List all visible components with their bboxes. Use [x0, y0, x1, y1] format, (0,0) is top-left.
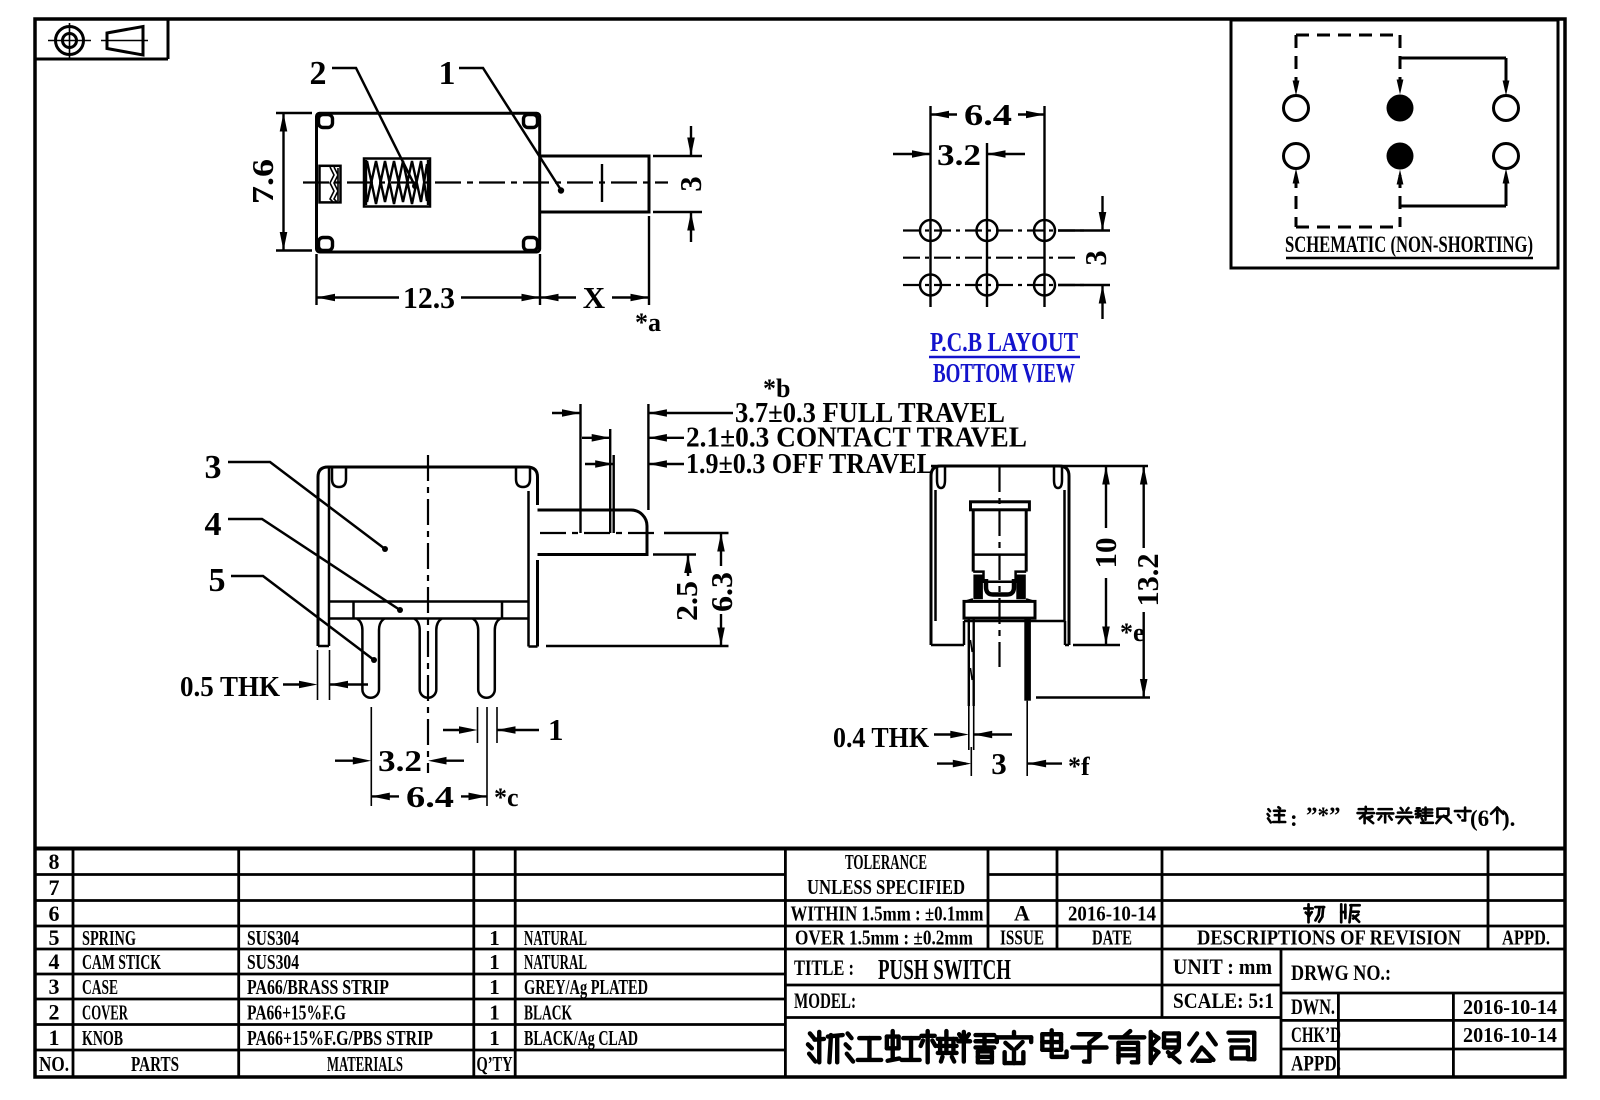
- svg-text:3: 3: [673, 176, 708, 192]
- terminal pins (3): [357, 619, 385, 698]
- pin2 centerline: [427, 455, 429, 773]
- svg-text:SPRING: SPRING: [82, 926, 136, 950]
- svg-text:”*”: ”*”: [1306, 803, 1341, 828]
- svg-text:*f: *f: [1068, 752, 1090, 781]
- svg-text:BLACK/Ag CLAD: BLACK/Ag CLAD: [524, 1026, 638, 1050]
- note: key dimensions remark: [1268, 807, 1286, 822]
- spring (part 2): [364, 159, 430, 207]
- svg-text:*b: *b: [763, 374, 790, 403]
- svg-text:2.5: 2.5: [669, 581, 704, 621]
- svg-text:6: 6: [49, 901, 60, 926]
- svg-text:DRWG NO.:: DRWG NO.:: [1291, 960, 1391, 985]
- svg-text:4: 4: [205, 506, 222, 543]
- top view corner notch BL: [319, 238, 333, 251]
- svg-text:MODEL:: MODEL:: [794, 988, 856, 1013]
- svg-text:WITHIN 1.5mm : ±0.1mm: WITHIN 1.5mm : ±0.1mm: [791, 902, 984, 926]
- svg-text:CHK’D: CHK’D: [1291, 1022, 1341, 1047]
- svg-text:0.4 THK: 0.4 THK: [833, 723, 929, 754]
- top view corner notch TL: [319, 115, 333, 128]
- svg-text:10: 10: [1088, 538, 1123, 569]
- knob (part 1) side profile: [538, 510, 648, 555]
- cam stick castle profile: [973, 572, 1026, 582]
- contact cup between wings: [986, 579, 1014, 595]
- svg-text:2016-10-14: 2016-10-14: [1463, 995, 1557, 1019]
- title block grid: [988, 873, 1565, 876]
- cover crimp notch TR (side view): [1054, 466, 1062, 488]
- collar / base flange: [964, 601, 1035, 618]
- top view corner notch TR: [524, 115, 538, 128]
- svg-text:1: 1: [548, 712, 564, 747]
- side view centerline: [998, 466, 1000, 667]
- terminal circles: left column: [1284, 96, 1309, 121]
- svg-text:DESCRIPTIONS OF REVISION: DESCRIPTIONS OF REVISION: [1197, 926, 1461, 950]
- contact wings (filled): [973, 575, 983, 600]
- svg-text:6.4: 6.4: [406, 779, 454, 814]
- dimension 3.2 (pad pitch): [893, 153, 931, 155]
- svg-text:3: 3: [205, 449, 222, 486]
- dimension 6.4 (outer pin span): [486, 707, 488, 806]
- svg-text:1: 1: [489, 1000, 500, 1024]
- svg-text:SCHEMATIC (NON-SHORTING): SCHEMATIC (NON-SHORTING): [1285, 232, 1533, 257]
- svg-text:*e: *e: [1120, 618, 1145, 647]
- svg-text:3: 3: [991, 746, 1007, 781]
- dimension 12.3 (top view width): [315, 254, 317, 305]
- svg-text:COVER: COVER: [82, 1000, 129, 1024]
- knob cap (side view): [971, 502, 1030, 510]
- svg-text:BOTTOM VIEW: BOTTOM VIEW: [933, 358, 1075, 388]
- svg-text:3.2: 3.2: [937, 137, 981, 172]
- svg-text:1: 1: [489, 975, 500, 999]
- svg-text:1.9±0.3 OFF TRAVEL: 1.9±0.3 OFF TRAVEL: [686, 449, 934, 480]
- dimension 2.5: [687, 555, 689, 577]
- svg-text:APPD.: APPD.: [1502, 926, 1550, 950]
- leg extension tails: [968, 706, 970, 750]
- svg-text:8: 8: [49, 849, 60, 874]
- svg-text:SUS304: SUS304: [247, 926, 299, 950]
- dimension 3.7±0.3 FULL TRAVEL: [552, 412, 581, 414]
- svg-text:7: 7: [49, 875, 60, 900]
- svg-text:OVER 1.5mm : ±0.2mm: OVER 1.5mm : ±0.2mm: [795, 926, 973, 950]
- left terminal leg (thin): [968, 618, 970, 706]
- knob centerline: [540, 532, 659, 534]
- dashed movable contact rectangle: [1296, 34, 1400, 37]
- first-angle projection circle symbol: [56, 27, 84, 55]
- pad column centerlines: [929, 106, 931, 307]
- cover crimp notch TL (side view): [937, 466, 945, 488]
- side view bottom recess: [931, 644, 964, 647]
- svg-text:BLACK: BLACK: [524, 1000, 572, 1024]
- svg-text:4: 4: [49, 949, 60, 974]
- svg-text:1: 1: [439, 55, 456, 92]
- top view: spring end tab on left wall: [320, 166, 341, 203]
- svg-text:ISSUE: ISSUE: [1000, 926, 1044, 950]
- pad row centerlines: [903, 229, 1085, 231]
- svg-text:NO.: NO.: [39, 1052, 69, 1076]
- side view inner walls: [934, 490, 937, 621]
- svg-text:3: 3: [1078, 250, 1113, 266]
- svg-text:SUS304: SUS304: [247, 950, 299, 974]
- svg-text:TOLERANCE: TOLERANCE: [845, 850, 927, 874]
- dimension 6.4 (pad span): [931, 113, 958, 115]
- dimension 3.2 (pin pitch): [370, 707, 372, 806]
- dimension 7.6 (top view height): [276, 112, 312, 114]
- svg-text:5: 5: [209, 562, 226, 599]
- svg-text:PUSH SWITCH: PUSH SWITCH: [878, 954, 1011, 986]
- svg-text:GREY/Ag PLATED: GREY/Ag PLATED: [524, 975, 648, 999]
- svg-text:Q’TY: Q’TY: [477, 1052, 513, 1076]
- svg-text:APPD.: APPD.: [1291, 1051, 1341, 1076]
- top view: switch body outline: [317, 113, 540, 252]
- base plate of case: [329, 600, 529, 603]
- svg-text:SCALE: 5:1: SCALE: 5:1: [1173, 988, 1274, 1013]
- svg-text:*a: *a: [635, 308, 661, 337]
- dimension 1 (pin width): [477, 707, 479, 743]
- PCB layout pads (6 holes): [920, 220, 941, 241]
- extension lines right of front view: [664, 532, 729, 534]
- projection cone symbol: [107, 27, 143, 56]
- svg-text:2016-10-14: 2016-10-14: [1068, 902, 1156, 926]
- dimension 3 (shaft height, right of top view): [653, 155, 702, 157]
- svg-text:(6: (6: [1470, 806, 1489, 831]
- svg-text:3.2: 3.2: [378, 743, 422, 778]
- top view corner notch BR: [524, 238, 538, 251]
- shaft reference tick: [601, 164, 603, 202]
- solid wiring to right contacts: [1400, 57, 1506, 60]
- svg-text:NATURAL: NATURAL: [524, 926, 587, 950]
- right terminal leg (sectioned, filled): [1024, 618, 1031, 701]
- svg-text:PARTS: PARTS: [131, 1052, 179, 1076]
- svg-text:1: 1: [489, 926, 500, 950]
- svg-text:UNLESS SPECIFIED: UNLESS SPECIFIED: [807, 875, 965, 899]
- svg-text:UNIT : mm: UNIT : mm: [1173, 954, 1272, 979]
- dimension 10 (case height): [1073, 644, 1120, 646]
- arrows on dashed lines: [1293, 81, 1300, 96]
- svg-text:TITLE :: TITLE :: [794, 955, 854, 980]
- svg-text:1: 1: [489, 1026, 500, 1050]
- svg-text:KNOB: KNOB: [82, 1026, 123, 1050]
- terminal circles: right column: [1494, 96, 1519, 121]
- svg-text:CAM STICK: CAM STICK: [82, 950, 161, 974]
- svg-text:DATE: DATE: [1092, 926, 1132, 950]
- svg-text:12.3: 12.3: [403, 280, 455, 315]
- right side plate: [536, 560, 539, 647]
- svg-text:3: 3: [49, 974, 60, 999]
- dimension 3 (pad row pitch): [1058, 229, 1110, 231]
- svg-text:0.5 THK: 0.5 THK: [180, 672, 280, 703]
- dimension 13.2 (overall height): [1036, 696, 1150, 698]
- dimension 3 (leg pitch): [970, 747, 972, 776]
- dimension 2.1±0.3 CONTACT TRAVEL: [582, 437, 610, 439]
- left side plate: [328, 467, 331, 646]
- svg-text:2016-10-14: 2016-10-14: [1463, 1023, 1557, 1047]
- svg-text:6.3: 6.3: [704, 572, 739, 612]
- side view: case outline: [931, 466, 1069, 645]
- svg-text:P.C.B LAYOUT: P.C.B LAYOUT: [930, 327, 1078, 357]
- front view: case outline: [318, 467, 538, 646]
- svg-text:).: ).: [1502, 806, 1515, 831]
- svg-text:PA66/BRASS STRIP: PA66/BRASS STRIP: [247, 975, 389, 999]
- svg-text:13.2: 13.2: [1130, 554, 1165, 607]
- svg-text::: :: [1290, 806, 1298, 831]
- dimension 6.3: [720, 533, 722, 566]
- svg-text:2: 2: [310, 55, 327, 92]
- svg-text:7.6: 7.6: [245, 159, 280, 204]
- svg-text:1: 1: [49, 1025, 60, 1050]
- svg-text:MATERIALS: MATERIALS: [327, 1052, 403, 1076]
- centerline of top view: [303, 181, 668, 183]
- svg-text:PA66+15%F.G: PA66+15%F.G: [247, 1000, 346, 1024]
- parts table grid: [35, 847, 1565, 851]
- knob shaft (part 1) protruding right: [540, 156, 649, 212]
- terminal circles: middle column (common, filled): [1387, 95, 1414, 122]
- svg-text:NATURAL: NATURAL: [524, 950, 587, 974]
- svg-text:CASE: CASE: [82, 975, 118, 999]
- svg-text:DWN.: DWN.: [1291, 994, 1335, 1019]
- dimension X (shaft length): [648, 216, 650, 305]
- schematic box frame: [1231, 20, 1558, 268]
- travel dimension extension lines: [579, 404, 581, 533]
- cover crimp notch TR: [516, 467, 530, 487]
- svg-text:6.4: 6.4: [964, 97, 1012, 132]
- svg-text:X: X: [583, 280, 606, 315]
- cover crimp notch TL: [332, 467, 346, 487]
- svg-text:5: 5: [49, 925, 60, 950]
- dimension 1.9±0.3 OFF TRAVEL: [585, 463, 614, 465]
- svg-text:*c: *c: [494, 783, 519, 812]
- svg-text:2: 2: [49, 999, 60, 1024]
- svg-text:A: A: [1014, 901, 1030, 926]
- projection symbol box top-left: [35, 58, 168, 61]
- company name (Chinese): [808, 1032, 843, 1062]
- svg-text:1: 1: [489, 950, 500, 974]
- svg-text:PA66+15%F.G/PBS STRIP: PA66+15%F.G/PBS STRIP: [247, 1026, 433, 1050]
